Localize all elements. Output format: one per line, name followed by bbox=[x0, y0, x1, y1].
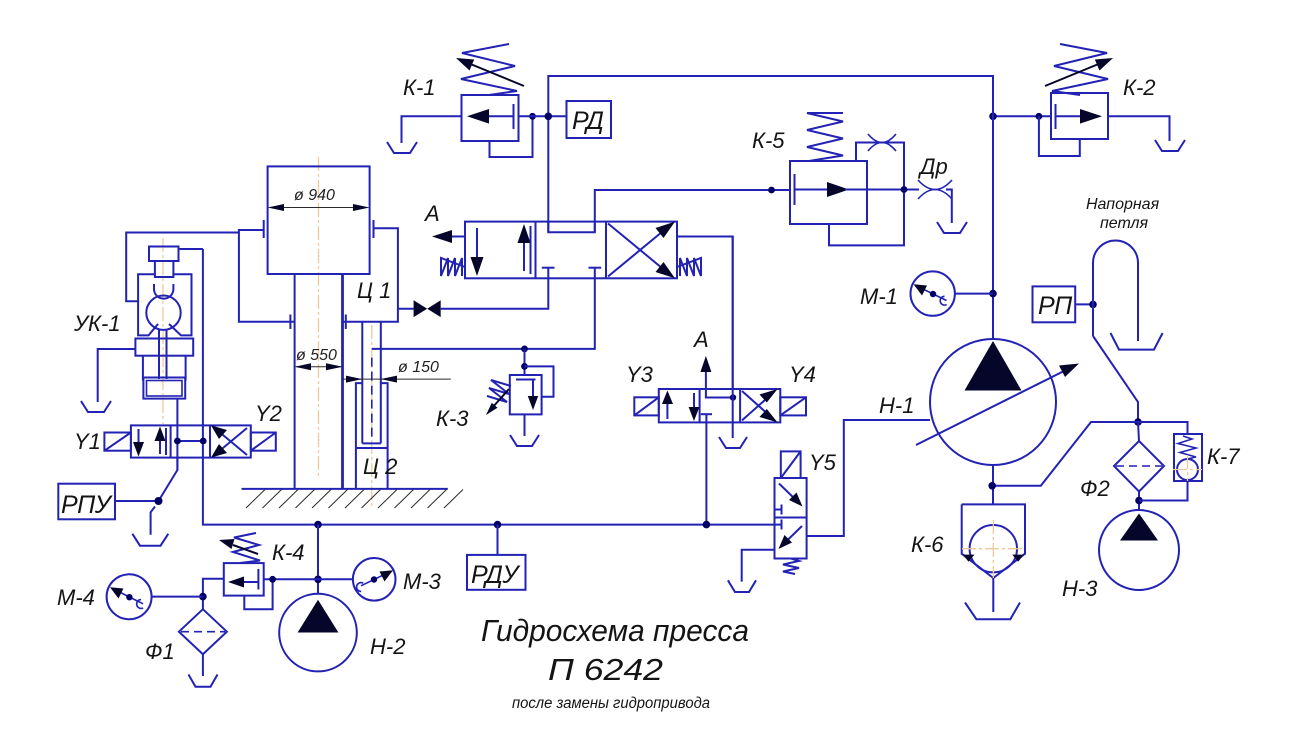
node pump outlet bbox=[988, 482, 996, 490]
cylinder Ц2 body bbox=[356, 383, 388, 489]
node Y1Y2 mid right bbox=[200, 438, 207, 445]
Ц1 head left flange bbox=[263, 220, 265, 238]
tank under Y3Y4 bbox=[719, 437, 747, 448]
gauge М-4 bbox=[107, 574, 152, 619]
svg-text:РДУ: РДУ bbox=[471, 561, 521, 589]
gate valve on Ц1 line bbox=[398, 300, 441, 317]
svg-text:Y4: Y4 bbox=[789, 362, 816, 387]
Ц1 housing left jacket bbox=[239, 230, 295, 329]
wire Y1Y2 drain diagonal to РПУ node bbox=[159, 458, 178, 501]
valve A right position crossed arrows bbox=[608, 222, 675, 279]
wire pump riser to К-2 bbox=[993, 115, 1051, 117]
centerline cylinder Ц1 bbox=[318, 157, 320, 477]
rod bore dashed bbox=[371, 358, 373, 439]
Y5 top position arrow bbox=[775, 484, 803, 515]
svg-text:ø 550: ø 550 bbox=[296, 347, 337, 364]
svg-text:Ц 2: Ц 2 bbox=[363, 454, 397, 479]
wire: top bus from РД riser to pump riser bbox=[548, 76, 993, 339]
svg-text:П 6242: П 6242 bbox=[548, 652, 663, 687]
valve A middle blocked port 2 bbox=[589, 268, 602, 279]
wire РП to loop bbox=[1075, 303, 1093, 305]
node К-1 outlet bbox=[529, 113, 536, 120]
centerline Ц2 bbox=[371, 325, 373, 509]
Ц1 head right flange bbox=[373, 220, 375, 238]
node riser-К-2 bbox=[989, 113, 997, 121]
wire Н-1 top port bbox=[992, 76, 994, 339]
node М-1 tap bbox=[989, 290, 997, 298]
К-3 drain wire bbox=[524, 414, 526, 436]
wire valve A to Ц2 rod bore bbox=[372, 278, 595, 349]
Y1Y2 left position arrows bbox=[133, 427, 166, 457]
node bus-Y3Y4 bbox=[703, 521, 711, 529]
Y2 solenoid bbox=[251, 433, 276, 451]
check valve К-7 bbox=[1173, 434, 1202, 484]
wire М-1 to riser bbox=[955, 293, 993, 295]
relief valve К-2 body bbox=[1051, 93, 1108, 139]
svg-text:Ф1: Ф1 bbox=[145, 639, 175, 664]
pump Н-3 bbox=[1099, 510, 1179, 590]
wire РПУ to node bbox=[115, 500, 159, 502]
tank under Др bbox=[937, 222, 967, 233]
Y3Y4 middle position port A link bbox=[701, 389, 733, 422]
svg-text:К-6: К-6 bbox=[911, 532, 944, 557]
wire gate valve to valve A port bbox=[441, 278, 549, 308]
svg-text:К-3: К-3 bbox=[436, 406, 469, 431]
УК-1 flange bbox=[135, 339, 193, 356]
svg-text:К-1: К-1 bbox=[403, 75, 436, 100]
Ц1 housing right jacket bbox=[343, 228, 398, 329]
К-4 pilot loop bbox=[244, 579, 272, 609]
svg-text:Н-3: Н-3 bbox=[1062, 576, 1098, 601]
dimension ∅940 bbox=[268, 187, 370, 211]
valve К-4 body bbox=[224, 563, 264, 596]
pressure loop (напорная петля) bbox=[1093, 241, 1138, 341]
dimension ∅150 bbox=[343, 359, 451, 383]
node М-4 tap bbox=[199, 593, 207, 601]
К-2 pilot wire loop bbox=[1039, 116, 1080, 156]
valve A middle blocked port 1 bbox=[542, 268, 555, 279]
plunger ∅550 right wall bbox=[341, 274, 344, 489]
node РП tap bbox=[1089, 301, 1097, 309]
УК-1 lower housing bbox=[143, 356, 186, 381]
wire Y5 to pump Н-1 suction bbox=[807, 420, 930, 536]
cylinder Ц1 head ∅940 bbox=[268, 166, 370, 274]
wire junction to К-7 bbox=[1138, 422, 1188, 434]
switch blade to tank bbox=[151, 507, 155, 535]
wire К-5 feed riser bbox=[595, 190, 790, 232]
wire bus to Н-2 and К-4 line bbox=[317, 525, 319, 594]
svg-text:Н-2: Н-2 bbox=[370, 634, 405, 659]
wire loop to Ф2 junction bbox=[1093, 336, 1138, 422]
svg-text:К-7: К-7 bbox=[1207, 444, 1240, 469]
valve Y1/Y2 body bbox=[131, 425, 251, 457]
node К-4/М-3 cross bbox=[314, 576, 322, 584]
svg-text:Ф2: Ф2 bbox=[1080, 476, 1110, 501]
throttle Др bbox=[918, 180, 952, 223]
pressure switch РДУ box bbox=[467, 555, 526, 590]
wire pump outlet to Ф2 junction bbox=[992, 422, 1138, 486]
svg-text:петля: петля bbox=[1100, 215, 1149, 232]
К-3 pilot tap wire bbox=[524, 349, 526, 375]
svg-text:Ц 1: Ц 1 bbox=[357, 278, 391, 303]
valve A port A arrow bbox=[432, 230, 465, 243]
ground baseline bbox=[242, 488, 448, 490]
wire Ф2 to Н-3 bbox=[1138, 422, 1139, 511]
wire valve A right port to Y3 valve bbox=[677, 237, 733, 390]
Y1Y2 middle position link bbox=[177, 440, 203, 442]
Y5 bottom position arrow bbox=[775, 520, 803, 550]
К-1 spring with adjust arrow bbox=[456, 44, 524, 95]
tank under УК-1 bbox=[81, 401, 111, 412]
wire УК-1 left riser to cylinder jacket bbox=[126, 233, 239, 302]
gauge М-1 bbox=[911, 271, 955, 315]
Y3Y4 port A arrow up bbox=[700, 356, 711, 389]
filter Ф1 bbox=[179, 609, 227, 654]
valve К-3 body bbox=[510, 375, 542, 414]
УК-1 piston box bbox=[143, 378, 185, 399]
wire К-4 left to Ф1 riser bbox=[203, 579, 224, 610]
svg-text:К-5: К-5 bbox=[752, 128, 785, 153]
Y5 solenoid bbox=[781, 451, 801, 478]
tank under К-3 bbox=[510, 435, 539, 446]
node bus-Н-2 bbox=[314, 521, 322, 529]
gauge М-3 bbox=[353, 558, 396, 601]
К-4 spring and arrow bbox=[219, 533, 260, 563]
К-1 drain wire to tank bbox=[402, 116, 462, 143]
pressure switch РП box bbox=[1033, 286, 1076, 322]
К-5 pilot bypass with restrictor bbox=[829, 134, 904, 245]
tank under Ф1 bbox=[189, 675, 218, 687]
wire К-6 to tank bbox=[992, 578, 994, 612]
Y4 solenoid bbox=[780, 397, 806, 415]
svg-text:Гидросхема пресса: Гидросхема пресса bbox=[481, 613, 749, 648]
wire Y3Y4 through-line to tank bbox=[732, 237, 734, 439]
svg-text:К-4: К-4 bbox=[272, 540, 305, 565]
svg-text:Н-1: Н-1 bbox=[879, 393, 914, 418]
svg-text:ø 150: ø 150 bbox=[398, 359, 439, 376]
valve Y3/Y4 body bbox=[659, 389, 781, 422]
label Напорная петля bbox=[1086, 196, 1160, 232]
pressure switch РПУ box bbox=[58, 484, 115, 520]
node Y3Y4 mid bbox=[730, 394, 736, 400]
node К-2 inlet bbox=[1036, 113, 1043, 120]
svg-text:А: А bbox=[692, 327, 709, 352]
К-3 pilot loop bbox=[525, 366, 554, 396]
pressure switch РД box bbox=[567, 101, 612, 138]
pump Н-2 bbox=[279, 594, 357, 672]
node К-5 bypass join bbox=[901, 186, 908, 193]
node РПУ bbox=[155, 497, 163, 505]
valve A left spring bbox=[441, 258, 465, 276]
svg-text:РПУ: РПУ bbox=[61, 491, 114, 519]
node К-4 outlet bbox=[269, 576, 276, 583]
svg-text:М-1: М-1 bbox=[860, 284, 898, 309]
Y1 solenoid bbox=[104, 433, 130, 451]
svg-text:после замены гидропривода: после замены гидропривода bbox=[512, 695, 710, 712]
wire Y5 drain to tank bbox=[742, 550, 775, 582]
node К-5 inlet bbox=[768, 187, 775, 194]
К-5 spring bbox=[807, 113, 843, 161]
svg-text:Y3: Y3 bbox=[626, 362, 654, 387]
valve A left position arrows bbox=[471, 224, 531, 276]
wire Y3Y4 bottom to bus bbox=[705, 422, 707, 524]
К-2 spring with adjust arrow bbox=[1045, 44, 1113, 95]
УК-1 housing bbox=[138, 274, 191, 335]
svg-text:А: А bbox=[423, 201, 440, 226]
tank under К-1 bbox=[387, 142, 417, 153]
wire К-5 outlet bbox=[867, 189, 919, 191]
wire right riser УК-1 to bus bbox=[203, 249, 775, 525]
svg-text:РП: РП bbox=[1038, 292, 1073, 320]
node Ф2 bottom junction bbox=[1135, 497, 1143, 505]
centerline УК-1 bbox=[162, 238, 164, 424]
tank under Y5 drain bbox=[728, 580, 756, 592]
УК-1 drain wire bbox=[98, 349, 136, 402]
valve A middle position P-T bridge bbox=[548, 222, 595, 233]
Y3Y4 right position crossed arrows bbox=[742, 389, 778, 422]
svg-text:К-2: К-2 bbox=[1123, 75, 1156, 100]
tank under РПУ switch bbox=[132, 534, 168, 546]
svg-text:Y2: Y2 bbox=[255, 401, 282, 426]
svg-text:Y1: Y1 bbox=[74, 429, 101, 454]
node РД tap bbox=[545, 113, 553, 121]
ground hatching bbox=[246, 490, 463, 509]
tank under К-6 bbox=[965, 603, 1020, 620]
node К-3 pilot bbox=[521, 363, 528, 370]
valve A right spring bbox=[677, 258, 701, 276]
svg-text:М-3: М-3 bbox=[403, 569, 442, 594]
filter Ф2 bbox=[1114, 441, 1164, 492]
Y1Y2 right position crossed arrows bbox=[211, 425, 247, 457]
node К-3 tap bbox=[521, 346, 528, 353]
tank under К-2 outlet bbox=[1155, 140, 1185, 151]
rod ∅150 walls bbox=[362, 322, 381, 444]
node Ф2 top junction bbox=[1134, 418, 1142, 426]
svg-text:Y5: Y5 bbox=[809, 450, 837, 475]
УК-1 stem bbox=[159, 329, 167, 379]
wire К-1 to РД bbox=[519, 115, 567, 117]
directional valve A body bbox=[465, 222, 677, 279]
pump Н-1 bbox=[916, 339, 1079, 465]
svg-text:РД: РД bbox=[572, 107, 603, 135]
УК-1 poppet cup bbox=[154, 284, 173, 299]
Y3 solenoid bbox=[634, 397, 659, 415]
svg-text:ø 940: ø 940 bbox=[294, 187, 335, 204]
wire К-7 bottom to Ф2 bottom bbox=[1139, 481, 1188, 501]
dimension ∅550 bbox=[295, 347, 343, 370]
wire К-4 to М-3 bbox=[264, 578, 353, 580]
svg-text:Др: Др bbox=[917, 154, 948, 179]
filling valve УК-1 upper cap bbox=[149, 247, 179, 278]
valve Y5 body bbox=[775, 478, 807, 559]
Y3Y4 left position arrows bbox=[662, 391, 699, 422]
wire pump Н-1 bottom port bbox=[992, 465, 994, 504]
УК-1 ball bbox=[146, 296, 180, 330]
svg-text:М-4: М-4 bbox=[57, 585, 95, 610]
wire Ф1 to tank bbox=[202, 654, 204, 676]
svg-text:УК-1: УК-1 bbox=[73, 311, 121, 336]
tank under loop bbox=[1111, 333, 1163, 350]
К-2 outlet wire to tank bbox=[1108, 116, 1170, 141]
К-1 pilot wire loop bbox=[490, 116, 533, 157]
svg-text:Напорная: Напорная bbox=[1086, 196, 1160, 213]
Y5 spring below bbox=[783, 559, 799, 575]
node bus-РДУ bbox=[494, 521, 502, 529]
wire УК-1 top to right riser bbox=[179, 248, 203, 250]
plunger ∅550 left wall bbox=[294, 274, 296, 489]
wire М-4 to riser bbox=[152, 596, 203, 598]
relief valve К-1 body bbox=[462, 95, 519, 141]
wire УК-1 bottom to valve Y1Y2 bbox=[176, 399, 178, 470]
valve К-5 body bbox=[790, 161, 867, 224]
node Y1Y2 mid left bbox=[174, 438, 181, 445]
wire bus to РДУ bbox=[497, 525, 499, 555]
suction valve К-6 bbox=[962, 504, 1025, 578]
К-3 spring and arrow bbox=[486, 380, 511, 415]
